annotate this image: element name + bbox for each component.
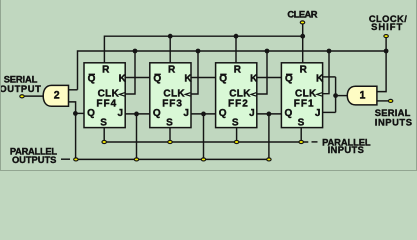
svg-text:S: S xyxy=(100,118,107,129)
node clock bus / FF3 CLK xyxy=(196,49,201,54)
svg-text:FF1: FF1 xyxy=(294,98,315,109)
wire parallel outputs bus xyxy=(76,158,269,160)
flip-flop FF3 xyxy=(150,63,193,129)
svg-text:CLEAR: CLEAR xyxy=(287,8,317,19)
wire CLK drop FF1 xyxy=(323,51,329,94)
svg-text:J: J xyxy=(118,108,124,119)
node clock bus / FF2 CLK xyxy=(265,49,270,54)
svg-text:R: R xyxy=(168,65,176,76)
wire K stub FF1 xyxy=(323,76,336,78)
label PARALLEL OUTPUTS xyxy=(10,145,57,165)
node gate 1 output xyxy=(333,93,338,98)
svg-text:Q: Q xyxy=(285,108,293,119)
wire Q FF2 to J FF3 xyxy=(191,113,216,115)
svg-text:2: 2 xyxy=(54,89,60,101)
wire serial output xyxy=(24,95,44,97)
svg-text:K: K xyxy=(184,74,192,85)
terminal parallel input FF3 xyxy=(168,140,172,143)
node FF2 Q tap xyxy=(201,112,206,117)
svg-text:Q: Q xyxy=(285,74,293,85)
node CLEAR bus / FF2 R xyxy=(234,34,239,39)
svg-text:K: K xyxy=(316,74,324,85)
svg-text:J: J xyxy=(249,108,255,119)
gate 2 (serial output gate) xyxy=(43,85,68,106)
wire S drop FF3 xyxy=(169,128,171,142)
wire CLK drop FF2 xyxy=(257,51,267,94)
svg-text:Q: Q xyxy=(153,74,161,85)
svg-text:Q: Q xyxy=(219,108,227,119)
wire Q tap drop FF2 xyxy=(203,114,205,159)
flip-flop FF4 xyxy=(84,63,127,129)
svg-text:Q: Q xyxy=(219,74,227,85)
flip-flop FF2 xyxy=(216,63,259,129)
svg-text:INPUTS: INPUTS xyxy=(328,144,365,155)
svg-text:1: 1 xyxy=(359,90,365,102)
svg-text:FF4: FF4 xyxy=(96,98,117,109)
wire R drop FF2 xyxy=(235,36,237,63)
svg-text:FF2: FF2 xyxy=(228,98,249,109)
node clock bus / FF1 CLK xyxy=(327,49,332,54)
wire CLOCK terminal drop xyxy=(377,38,386,92)
svg-text:J: J xyxy=(315,108,321,119)
wire parallel inputs bus xyxy=(104,141,308,143)
svg-text:OUTPUTS: OUTPUTS xyxy=(12,154,56,165)
terminal parallel input FF2 xyxy=(234,140,238,143)
terminal CLEAR xyxy=(287,8,317,24)
wire clock bus xyxy=(78,51,387,90)
svg-text:Q: Q xyxy=(88,74,96,85)
wire gate 1 output xyxy=(336,95,348,97)
svg-text:INPUTS: INPUTS xyxy=(375,116,413,127)
terminal parallel input FF4 xyxy=(102,140,106,143)
svg-text:SHIFT: SHIFT xyxy=(371,21,403,32)
terminals parallel outputs circles xyxy=(74,158,271,161)
wire CLK drop FF4 xyxy=(125,51,135,94)
svg-text:S: S xyxy=(166,118,173,129)
terminal CLOCK/SHIFT xyxy=(369,13,407,38)
wire S drop FF1 xyxy=(300,128,302,142)
wire R drop FF3 xyxy=(169,36,171,63)
node CLEAR bus / FF3 R xyxy=(168,34,173,39)
svg-text:K: K xyxy=(250,74,258,85)
svg-text:J: J xyxy=(183,108,189,119)
terminal parallel output FF3 xyxy=(134,158,138,161)
wire J stub FF1 xyxy=(323,111,336,113)
svg-text:S: S xyxy=(232,118,239,129)
node FF1 Q tap xyxy=(267,112,272,117)
svg-text:K: K xyxy=(119,74,127,85)
node CLEAR bus / terminal xyxy=(300,34,305,39)
wire FF4 Q output xyxy=(76,112,85,114)
wire Q FF1 to J FF2 xyxy=(257,113,282,115)
wire S drop FF2 xyxy=(236,128,238,142)
svg-text:FF3: FF3 xyxy=(162,98,183,109)
svg-text:R: R xyxy=(102,65,110,76)
svg-text:S: S xyxy=(298,118,305,129)
wire CLEAR bus xyxy=(104,36,303,63)
terminal parallel output FF2 xyxy=(201,158,205,161)
wire CLK drop FF3 xyxy=(191,51,198,94)
edge shading xyxy=(0,0,417,171)
wire Qbar FF1 to K FF2 xyxy=(257,77,282,79)
node clock bus / clock terminal xyxy=(384,49,389,54)
gate 1 (serial input gate) xyxy=(347,86,377,105)
svg-text:R: R xyxy=(234,65,242,76)
node FF4 Q junction xyxy=(73,111,78,116)
wire gate 2 bottom input and parallel output drop xyxy=(69,102,76,159)
svg-text:R: R xyxy=(300,65,308,76)
wire gate 1 bottom input to serial inputs terminal xyxy=(377,100,388,102)
wire gate 2 top input xyxy=(69,89,78,91)
wire Qbar FF2 to K FF3 xyxy=(191,77,216,79)
terminal SERIAL INPUTS xyxy=(375,99,413,127)
label PARALLEL INPUTS xyxy=(322,136,371,155)
wire parallel outputs dash xyxy=(61,158,70,160)
wire parallel inputs dash xyxy=(312,141,318,143)
terminals parallel inputs circles xyxy=(102,140,303,143)
terminal parallel output FF1 xyxy=(267,158,271,161)
flip-flop FF1 xyxy=(281,63,324,129)
wire CLEAR terminal drop xyxy=(302,24,304,63)
svg-text:Q: Q xyxy=(153,108,161,119)
terminal parallel output FF4 xyxy=(74,158,78,161)
wire Q tap drop FF3 xyxy=(136,114,138,159)
terminal parallel input FF1 xyxy=(299,140,303,143)
terminal SERIAL OUTPUT xyxy=(0,74,41,98)
wire Q FF3 to J FF4 xyxy=(125,113,150,115)
node clock bus / FF4 CLK xyxy=(133,49,138,54)
svg-text:Q: Q xyxy=(87,108,95,119)
node FF3 Q tap xyxy=(134,112,139,117)
wire Qbar FF3 to K FF4 xyxy=(125,77,150,79)
wire gate 1 output tie xyxy=(335,77,337,113)
svg-text:OUTPUT: OUTPUT xyxy=(0,83,41,94)
wire S drop FF4 xyxy=(103,128,105,142)
wire Q tap drop FF1 xyxy=(268,114,270,159)
